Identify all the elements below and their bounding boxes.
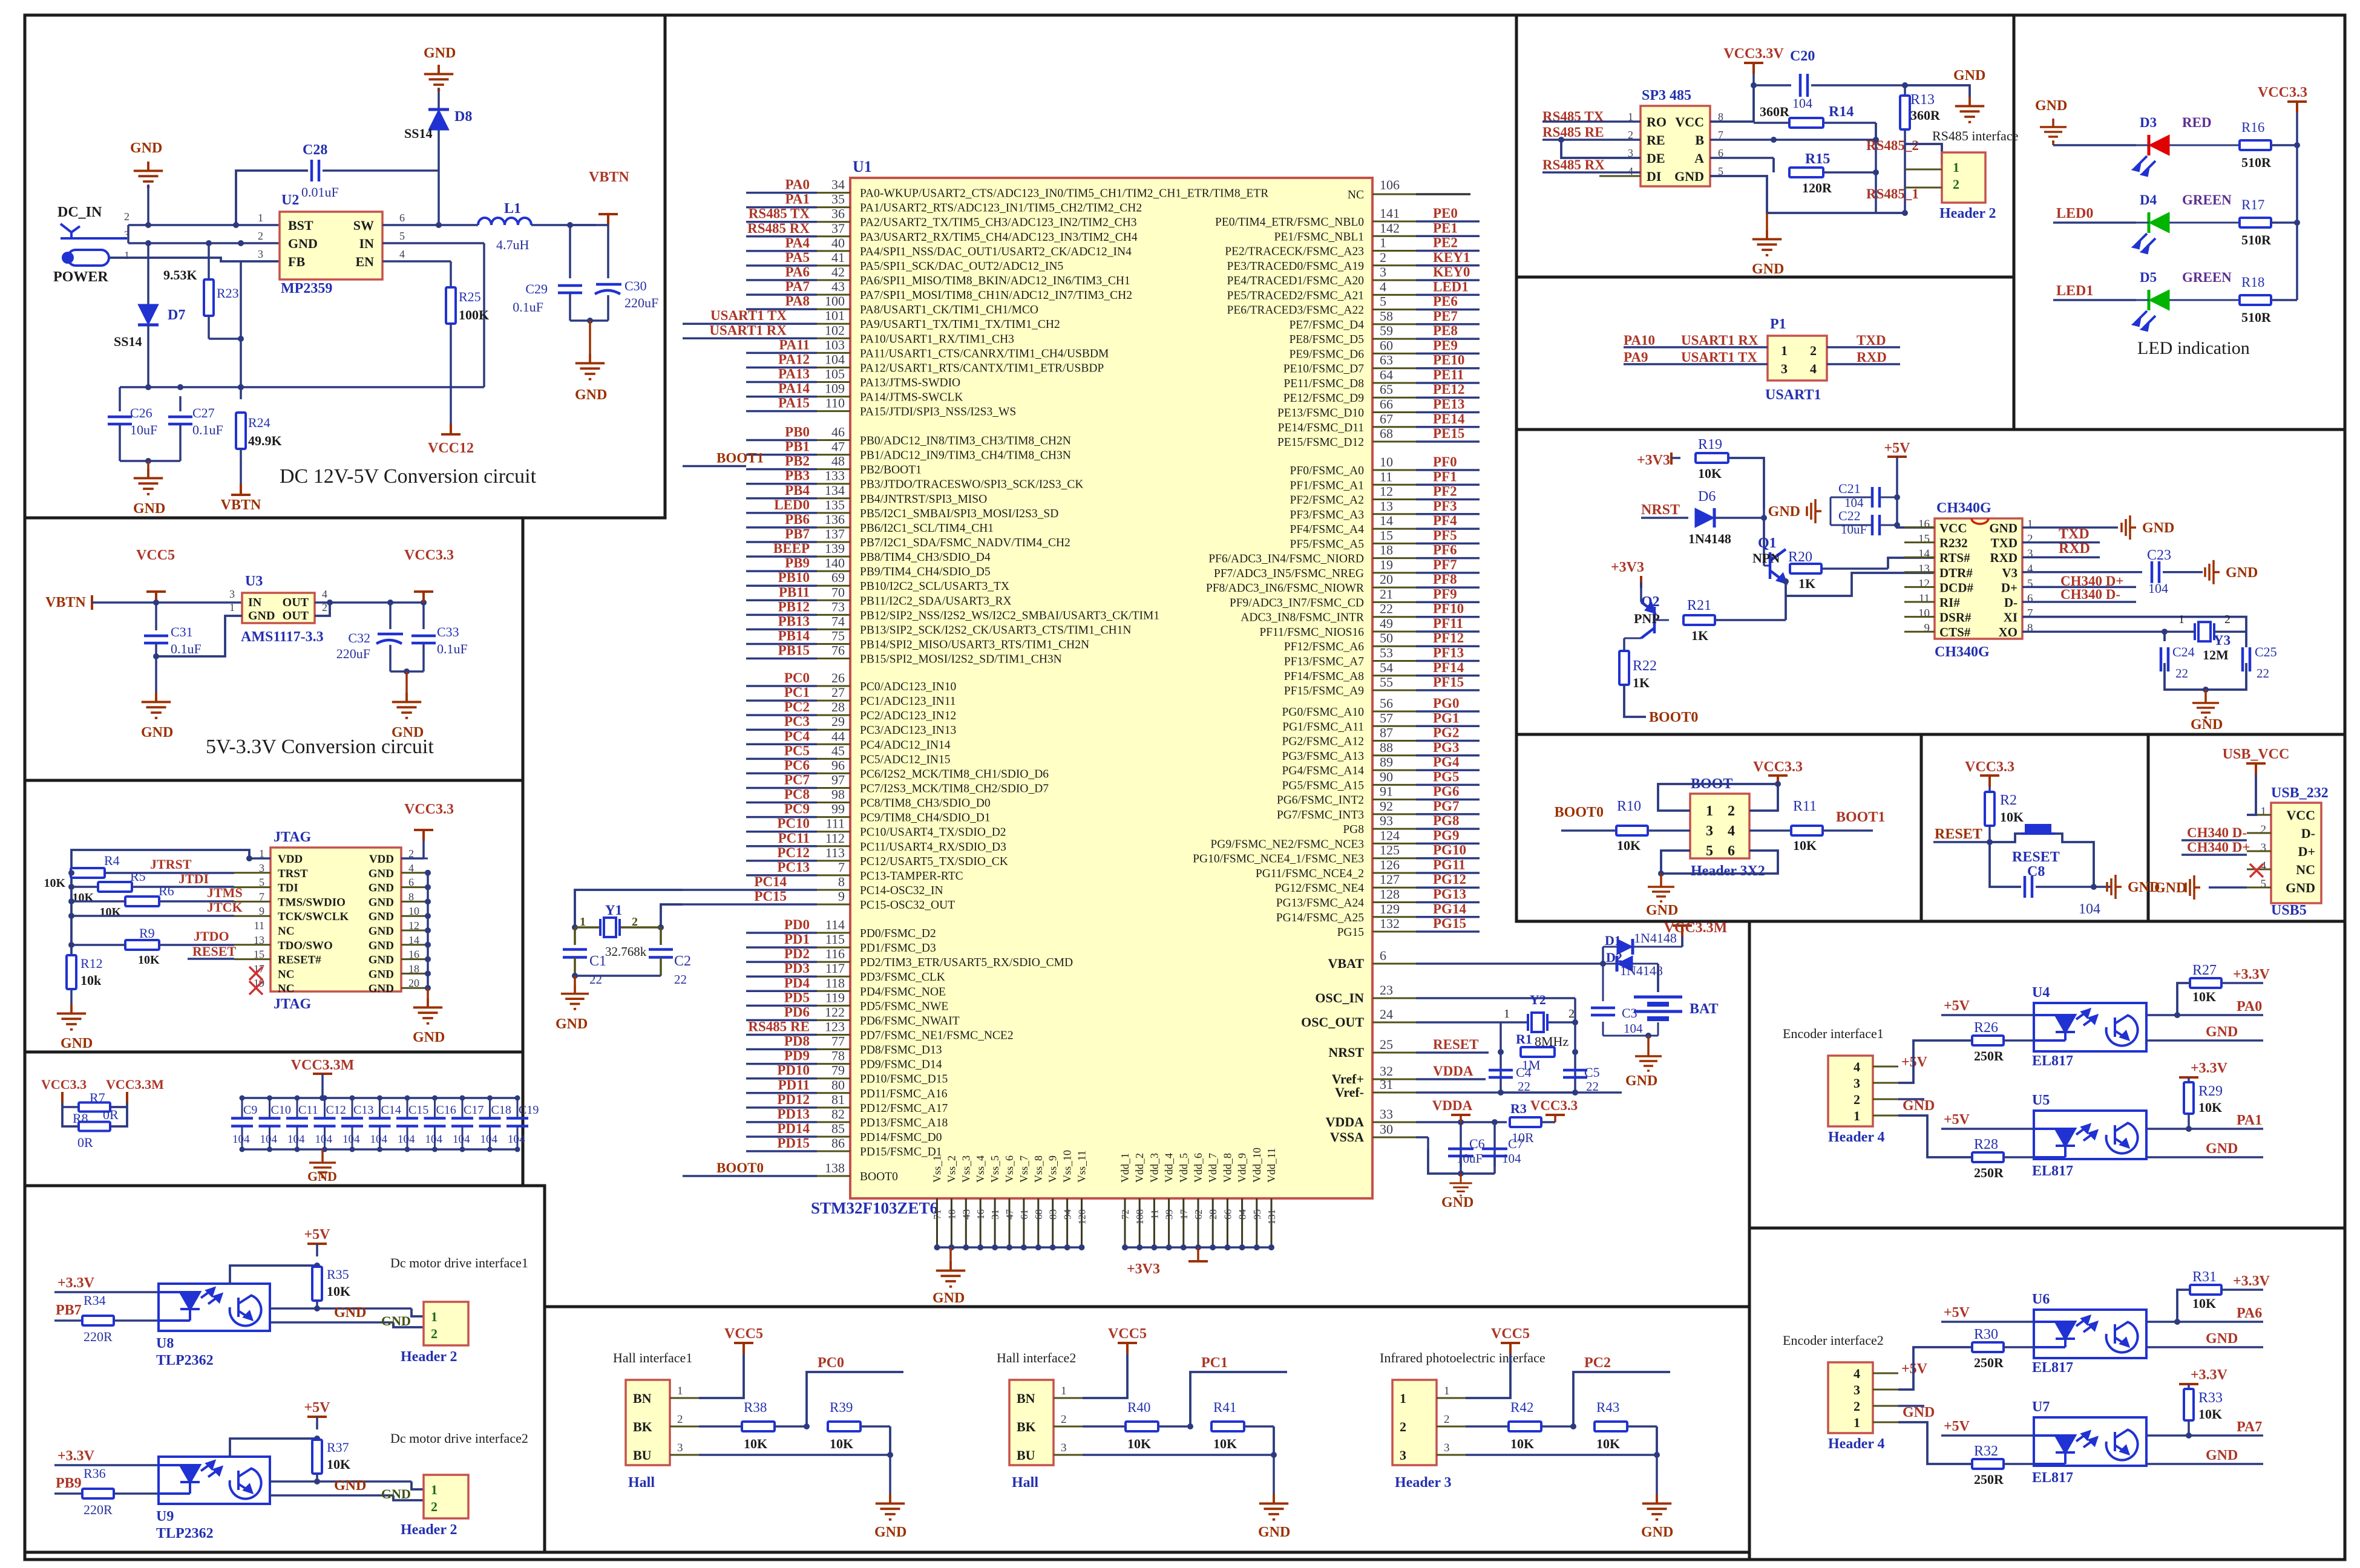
svg-text:PC2: PC2	[1584, 1355, 1611, 1371]
svg-text:PA13/JTMS-SWDIO: PA13/JTMS-SWDIO	[860, 377, 960, 390]
svg-text:VBTN: VBTN	[221, 497, 261, 513]
svg-text:PE8: PE8	[1433, 323, 1458, 338]
svg-text:PD2/TIM3_ETR/USART5_RX/SDIO_CM: PD2/TIM3_ETR/USART5_RX/SDIO_CMD	[860, 956, 1073, 969]
svg-text:DC 12V-5V Conversion circuit: DC 12V-5V Conversion circuit	[280, 465, 537, 488]
svg-text:PC8/TIM8_CH3/SDIO_D0: PC8/TIM8_CH3/SDIO_D0	[860, 797, 991, 810]
svg-text:PD4: PD4	[784, 975, 810, 990]
svg-text:PD8/FSMC_D13: PD8/FSMC_D13	[860, 1044, 942, 1057]
svg-text:GND: GND	[556, 1016, 588, 1032]
svg-text:+3.3V: +3.3V	[57, 1275, 95, 1291]
svg-text:12: 12	[1918, 577, 1930, 590]
svg-text:10: 10	[946, 1209, 957, 1220]
svg-text:4: 4	[1728, 823, 1735, 839]
svg-text:PC12: PC12	[777, 845, 810, 860]
svg-text:VCC5: VCC5	[724, 1326, 763, 1342]
svg-text:2: 2	[1810, 343, 1817, 358]
svg-text:120: 120	[1077, 1209, 1088, 1225]
svg-text:PE2/TRACECK/FSMC_A23: PE2/TRACECK/FSMC_A23	[1225, 246, 1364, 258]
svg-text:PA8: PA8	[785, 293, 810, 309]
svg-text:42: 42	[831, 264, 845, 279]
svg-text:PB10/I2C2_SCL/USART3_TX: PB10/I2C2_SCL/USART3_TX	[860, 580, 1009, 593]
svg-text:Hall: Hall	[628, 1475, 655, 1491]
svg-text:R32: R32	[1974, 1443, 1998, 1459]
svg-text:R11: R11	[1793, 799, 1817, 814]
svg-text:NRST: NRST	[1328, 1045, 1364, 1060]
svg-text:PE3/TRACED0/FSMC_A19: PE3/TRACED0/FSMC_A19	[1227, 260, 1364, 273]
svg-text:5V-3.3V Conversion circuit: 5V-3.3V Conversion circuit	[206, 736, 434, 758]
svg-text:Q2: Q2	[1641, 594, 1660, 610]
svg-text:22: 22	[589, 972, 602, 987]
svg-text:C29: C29	[525, 281, 548, 296]
svg-text:1: 1	[1706, 803, 1713, 819]
svg-text:C24: C24	[2172, 644, 2195, 659]
svg-text:2: 2	[1854, 1092, 1860, 1107]
svg-text:JTAG: JTAG	[274, 996, 312, 1012]
svg-text:PA9/USART1_TX/TIM1_TX/TIM1_CH2: PA9/USART1_TX/TIM1_TX/TIM1_CH2	[860, 318, 1060, 331]
svg-text:PF5: PF5	[1433, 528, 1457, 543]
svg-text:R34: R34	[84, 1293, 106, 1308]
svg-text:1K: 1K	[1798, 576, 1815, 591]
svg-text:VCC12: VCC12	[428, 440, 474, 456]
svg-text:5: 5	[2261, 878, 2267, 890]
svg-text:B: B	[1695, 132, 1704, 148]
svg-text:R10: R10	[1617, 799, 1641, 814]
svg-text:10K: 10K	[44, 877, 65, 890]
svg-text:Vss_3: Vss_3	[960, 1155, 972, 1183]
svg-text:PC10: PC10	[777, 816, 810, 831]
svg-text:138: 138	[825, 1160, 845, 1175]
svg-text:PF6/ADC3_IN4/FSMC_NIORD: PF6/ADC3_IN4/FSMC_NIORD	[1208, 553, 1364, 566]
svg-text:Vdd_10: Vdd_10	[1251, 1148, 1263, 1183]
svg-text:PA15: PA15	[778, 396, 810, 411]
svg-text:PB7: PB7	[56, 1302, 82, 1318]
svg-text:VSSA: VSSA	[1330, 1129, 1364, 1145]
svg-text:PC9: PC9	[784, 802, 810, 817]
svg-text:PA8/USART1_CK/TIM1_CH1/MCO: PA8/USART1_CK/TIM1_CH1/MCO	[860, 304, 1038, 316]
svg-text:6: 6	[1380, 948, 1386, 963]
svg-text:2: 2	[2261, 823, 2267, 836]
svg-text:GND: GND	[1641, 1524, 1673, 1540]
svg-text:RS485 RX: RS485 RX	[1542, 157, 1605, 172]
svg-text:FB: FB	[288, 254, 305, 269]
svg-text:OSC_OUT: OSC_OUT	[1301, 1014, 1364, 1030]
svg-text:PB7/I2C1_SDA/FSMC_NADV/TIM4_CH: PB7/I2C1_SDA/FSMC_NADV/TIM4_CH2	[860, 537, 1070, 549]
svg-text:2: 2	[1061, 1413, 1067, 1426]
svg-text:1: 1	[1444, 1385, 1450, 1397]
svg-text:PD3: PD3	[784, 961, 810, 976]
svg-text:GND: GND	[381, 1313, 411, 1328]
svg-text:C15: C15	[408, 1103, 428, 1117]
svg-text:PE12: PE12	[1433, 382, 1464, 397]
svg-text:U9: U9	[156, 1509, 174, 1524]
svg-text:PG2/FSMC_A12: PG2/FSMC_A12	[1282, 736, 1364, 748]
svg-text:30: 30	[1380, 1122, 1393, 1137]
svg-text:PA11/USART1_CTS/CANRX/TIM1_CH4: PA11/USART1_CTS/CANRX/TIM1_CH4/USBDM	[860, 347, 1109, 360]
svg-text:MP2359: MP2359	[281, 281, 332, 296]
svg-text:PG7: PG7	[1433, 799, 1459, 814]
svg-text:4.7uH: 4.7uH	[496, 237, 529, 252]
svg-text:VCC3.3: VCC3.3	[2258, 85, 2307, 100]
svg-text:142: 142	[1380, 220, 1400, 235]
svg-text:PE14/FSMC_D11: PE14/FSMC_D11	[1278, 422, 1364, 434]
svg-text:114: 114	[825, 917, 845, 932]
svg-text:46: 46	[831, 425, 845, 440]
svg-text:R35: R35	[327, 1267, 349, 1282]
svg-text:35: 35	[831, 192, 845, 207]
svg-text:4: 4	[1854, 1059, 1860, 1074]
svg-text:PD0: PD0	[784, 917, 810, 932]
svg-text:GND: GND	[141, 725, 173, 740]
svg-text:BN: BN	[1017, 1391, 1035, 1406]
svg-text:PE0/TIM4_ETR/FSMC_NBL0: PE0/TIM4_ETR/FSMC_NBL0	[1215, 216, 1364, 229]
svg-text:66: 66	[1380, 397, 1393, 412]
svg-text:R13: R13	[1910, 92, 1935, 108]
svg-text:BK: BK	[633, 1419, 652, 1434]
svg-text:Vss_10: Vss_10	[1061, 1150, 1073, 1183]
svg-text:2: 2	[677, 1413, 683, 1426]
svg-text:Header 2: Header 2	[401, 1522, 457, 1538]
svg-text:PD15/FSMC_D1: PD15/FSMC_D1	[860, 1146, 942, 1158]
svg-text:48: 48	[831, 454, 845, 469]
svg-text:SS14: SS14	[404, 126, 432, 141]
svg-text:GND: GND	[413, 1030, 445, 1045]
svg-text:C2: C2	[674, 953, 691, 969]
svg-text:PE6: PE6	[1433, 294, 1458, 309]
svg-text:PB11/I2C2_SDA/USART3_RX: PB11/I2C2_SDA/USART3_RX	[860, 595, 1012, 607]
svg-text:1: 1	[2261, 805, 2267, 818]
svg-text:57: 57	[1380, 710, 1393, 725]
svg-text:U2: U2	[281, 192, 299, 208]
svg-text:PF9: PF9	[1433, 586, 1457, 601]
svg-text:PE6/TRACED3/FSMC_A22: PE6/TRACED3/FSMC_A22	[1227, 304, 1364, 317]
svg-text:LED indication: LED indication	[2137, 338, 2250, 358]
svg-text:C26: C26	[130, 405, 152, 420]
svg-text:R31: R31	[2192, 1269, 2217, 1285]
svg-text:C8: C8	[2027, 864, 2045, 880]
svg-text:RTS#: RTS#	[1939, 550, 1970, 565]
svg-text:U3: U3	[245, 573, 263, 589]
svg-text:RXD: RXD	[1857, 350, 1887, 365]
svg-text:4: 4	[1380, 279, 1386, 294]
svg-text:POWER: POWER	[53, 269, 108, 285]
svg-text:PD0/FSMC_D2: PD0/FSMC_D2	[860, 927, 936, 940]
svg-text:101: 101	[825, 308, 845, 323]
svg-text:PB9/TIM4_CH4/SDIO_D5: PB9/TIM4_CH4/SDIO_D5	[860, 566, 991, 578]
svg-text:C17: C17	[464, 1103, 483, 1117]
svg-text:D+: D+	[2298, 844, 2315, 859]
svg-text:104: 104	[480, 1133, 498, 1146]
svg-text:R19: R19	[1698, 437, 1722, 452]
svg-text:CH340G: CH340G	[1936, 500, 1991, 516]
svg-text:SP3 485: SP3 485	[1642, 88, 1691, 103]
svg-text:USB5: USB5	[2271, 903, 2307, 918]
svg-text:Dc motor drive interface2: Dc motor drive interface2	[390, 1431, 528, 1446]
svg-text:104: 104	[1624, 1021, 1643, 1036]
svg-text:VCC3.3M: VCC3.3M	[291, 1057, 355, 1073]
svg-text:GND: GND	[1989, 521, 2017, 535]
svg-text:PF12: PF12	[1433, 630, 1464, 645]
svg-text:ADC3_IN8/FSMC_INTR: ADC3_IN8/FSMC_INTR	[1241, 612, 1364, 624]
svg-text:Vdd_6: Vdd_6	[1192, 1153, 1204, 1183]
svg-text:PA10/USART1_RX/TIM1_CH3: PA10/USART1_RX/TIM1_CH3	[860, 333, 1014, 345]
svg-text:NC: NC	[2296, 862, 2315, 877]
svg-text:94: 94	[1062, 1209, 1073, 1220]
svg-text:P1: P1	[1770, 316, 1786, 332]
svg-text:PF7/ADC3_IN5/FSMC_NREG: PF7/ADC3_IN5/FSMC_NREG	[1214, 567, 1364, 580]
svg-text:7: 7	[838, 860, 845, 875]
svg-text:GREEN: GREEN	[2182, 270, 2232, 285]
svg-text:PF14/FSMC_A8: PF14/FSMC_A8	[1284, 670, 1364, 683]
svg-text:PG11/FSMC_NCE4_2: PG11/FSMC_NCE4_2	[1256, 867, 1364, 880]
svg-text:22: 22	[674, 972, 687, 987]
svg-text:10K: 10K	[1698, 466, 1722, 481]
svg-text:C21: C21	[1838, 481, 1861, 496]
svg-text:R36: R36	[84, 1466, 106, 1481]
svg-text:R232: R232	[1939, 536, 1968, 550]
svg-text:PC9/TIM8_CH4/SDIO_D1: PC9/TIM8_CH4/SDIO_D1	[860, 812, 991, 825]
svg-text:TCK/SWCLK: TCK/SWCLK	[278, 910, 349, 923]
svg-text:RS485 RX: RS485 RX	[747, 221, 810, 236]
svg-text:GND: GND	[1674, 169, 1704, 184]
svg-text:10K: 10K	[1596, 1436, 1620, 1451]
svg-text:127: 127	[1380, 872, 1400, 887]
svg-text:+5V: +5V	[304, 1400, 330, 1416]
svg-text:PD14: PD14	[777, 1121, 810, 1136]
svg-text:3: 3	[2261, 841, 2267, 854]
svg-text:104: 104	[315, 1133, 333, 1146]
svg-text:RESET: RESET	[1935, 826, 1982, 842]
svg-text:PB2/BOOT1: PB2/BOOT1	[860, 464, 922, 477]
svg-text:510R: 510R	[2241, 232, 2272, 247]
svg-text:PC1: PC1	[1201, 1355, 1228, 1371]
svg-text:65: 65	[1380, 382, 1393, 397]
svg-text:TXD: TXD	[1991, 536, 2017, 550]
svg-text:6: 6	[399, 212, 405, 224]
svg-text:U8: U8	[156, 1336, 174, 1351]
svg-text:PA14/JTMS-SWCLK: PA14/JTMS-SWCLK	[860, 391, 963, 404]
svg-text:125: 125	[1380, 843, 1400, 858]
svg-text:TXD: TXD	[2059, 526, 2090, 542]
svg-text:PB3: PB3	[785, 468, 810, 483]
svg-text:PC13: PC13	[777, 860, 810, 875]
svg-text:PA4: PA4	[785, 235, 810, 250]
svg-text:PB13: PB13	[778, 613, 810, 629]
svg-text:100: 100	[825, 293, 845, 309]
svg-text:49: 49	[1380, 616, 1393, 631]
svg-text:128: 128	[1380, 887, 1400, 902]
svg-text:PE8/FSMC_D5: PE8/FSMC_D5	[1289, 333, 1364, 346]
svg-text:2: 2	[431, 1326, 438, 1341]
svg-text:+3V3: +3V3	[1637, 452, 1670, 468]
svg-text:10K: 10K	[327, 1457, 350, 1472]
svg-text:C30: C30	[624, 278, 647, 293]
svg-text:PA0-WKUP/USART2_CTS/ADC123_IN0: PA0-WKUP/USART2_CTS/ADC123_IN0/TIM5_CH1/…	[860, 188, 1268, 200]
svg-text:GND: GND	[1625, 1073, 1657, 1089]
svg-text:134: 134	[825, 483, 845, 498]
svg-text:1: 1	[2178, 613, 2185, 626]
svg-text:C10: C10	[271, 1103, 291, 1117]
svg-text:R6: R6	[159, 883, 174, 898]
svg-text:PC15: PC15	[754, 889, 787, 904]
svg-text:PA9: PA9	[1624, 350, 1648, 365]
svg-text:PB13/SIP2_SCK/I2S2_CK/USART3_C: PB13/SIP2_SCK/I2S2_CK/USART3_CTS/TIM1_CH…	[860, 624, 1132, 636]
svg-text:72: 72	[1119, 1209, 1131, 1220]
svg-text:22: 22	[1586, 1079, 1599, 1094]
svg-text:R27: R27	[2192, 962, 2217, 978]
svg-text:PNP: PNP	[1634, 611, 1660, 626]
svg-text:+3V3: +3V3	[1127, 1261, 1160, 1277]
svg-text:133: 133	[825, 468, 845, 483]
svg-text:62: 62	[1193, 1209, 1204, 1220]
svg-text:86: 86	[831, 1135, 845, 1151]
svg-text:PA1: PA1	[2237, 1112, 2262, 1128]
svg-text:GND: GND	[2206, 1331, 2238, 1347]
svg-text:DI: DI	[1647, 169, 1661, 184]
svg-text:3: 3	[1400, 1448, 1406, 1463]
svg-text:PG9/FSMC_NE2/FSMC_NCE3: PG9/FSMC_NE2/FSMC_NCE3	[1210, 838, 1364, 851]
svg-text:VCC3.3: VCC3.3	[404, 547, 454, 563]
svg-text:3: 3	[1781, 361, 1788, 376]
svg-text:20: 20	[1380, 572, 1393, 587]
svg-text:BOOT1: BOOT1	[1836, 809, 1885, 825]
svg-text:4: 4	[1854, 1366, 1860, 1381]
svg-text:KEY0: KEY0	[1433, 264, 1470, 279]
svg-text:10k: 10k	[80, 973, 102, 988]
svg-text:PA6: PA6	[2237, 1305, 2262, 1321]
svg-text:GND: GND	[2286, 880, 2315, 895]
svg-text:TLP2362: TLP2362	[156, 1353, 214, 1368]
svg-text:1: 1	[1400, 1391, 1406, 1406]
svg-text:D8: D8	[454, 109, 472, 125]
svg-text:104: 104	[425, 1133, 443, 1146]
svg-text:PE7: PE7	[1433, 309, 1458, 324]
svg-text:0.1uF: 0.1uF	[437, 641, 468, 656]
svg-text:EL817: EL817	[2032, 1053, 2073, 1069]
svg-text:28: 28	[1207, 1209, 1219, 1220]
svg-text:PE13/FSMC_D10: PE13/FSMC_D10	[1277, 407, 1364, 420]
svg-text:BST: BST	[288, 218, 313, 233]
svg-text:PF6: PF6	[1433, 543, 1457, 558]
svg-text:3: 3	[1380, 264, 1386, 279]
svg-text:PE9: PE9	[1433, 338, 1458, 353]
svg-text:VCC5: VCC5	[1491, 1326, 1530, 1342]
svg-text:C32: C32	[348, 630, 370, 645]
svg-text:VBAT: VBAT	[1328, 956, 1365, 971]
svg-text:GND: GND	[133, 501, 165, 517]
svg-text:2: 2	[1400, 1419, 1406, 1434]
svg-text:PA10: PA10	[1624, 333, 1655, 348]
svg-text:3: 3	[1061, 1442, 1067, 1454]
svg-text:PE13: PE13	[1433, 397, 1464, 412]
svg-text:PC8: PC8	[784, 787, 810, 802]
svg-text:Vdd_2: Vdd_2	[1133, 1153, 1146, 1183]
svg-text:Vss_11: Vss_11	[1076, 1151, 1088, 1183]
svg-text:PB15/SPI2_MOSI/I2S2_SD/TIM1_CH: PB15/SPI2_MOSI/I2S2_SD/TIM1_CH3N	[860, 653, 1062, 666]
svg-text:510R: 510R	[2241, 310, 2272, 325]
svg-text:16: 16	[1918, 518, 1930, 531]
svg-text:U5: U5	[2032, 1093, 2050, 1108]
svg-text:9: 9	[838, 889, 845, 904]
svg-text:PB12: PB12	[778, 599, 810, 614]
svg-text:GND: GND	[1768, 504, 1800, 520]
svg-text:103: 103	[825, 337, 845, 352]
svg-text:GND: GND	[1953, 68, 1985, 83]
svg-text:131: 131	[1266, 1209, 1277, 1225]
svg-text:11: 11	[1919, 592, 1930, 605]
svg-text:VDD: VDD	[369, 853, 394, 866]
svg-text:PG10: PG10	[1433, 843, 1466, 858]
svg-text:Vss_4: Vss_4	[974, 1155, 986, 1183]
svg-text:2: 2	[1728, 803, 1735, 819]
svg-text:XI: XI	[2004, 610, 2017, 625]
svg-text:PC7: PC7	[784, 772, 810, 787]
svg-text:PG1: PG1	[1433, 710, 1459, 725]
svg-text:Vref-: Vref-	[1335, 1085, 1364, 1100]
svg-text:EL817: EL817	[2032, 1470, 2073, 1486]
svg-text:2: 2	[124, 211, 129, 223]
svg-text:VCC3.3: VCC3.3	[1530, 1098, 1578, 1113]
svg-text:OUT: OUT	[283, 609, 309, 622]
svg-text:PB4: PB4	[785, 483, 810, 498]
svg-text:2: 2	[2224, 613, 2231, 626]
svg-text:PF11/FSMC_NIOS16: PF11/FSMC_NIOS16	[1259, 626, 1364, 639]
svg-text:5: 5	[399, 230, 405, 242]
svg-text:D4: D4	[2140, 192, 2157, 207]
svg-text:VCC: VCC	[1939, 521, 1967, 535]
svg-text:85: 85	[831, 1121, 845, 1136]
svg-text:RED: RED	[2182, 115, 2212, 130]
svg-text:3: 3	[258, 248, 263, 260]
svg-text:PB4/JNTRST/SPI3_MISO: PB4/JNTRST/SPI3_MISO	[860, 493, 987, 506]
svg-text:510R: 510R	[2241, 155, 2272, 170]
svg-text:PE10: PE10	[1433, 353, 1464, 368]
svg-text:TLP2362: TLP2362	[156, 1526, 214, 1541]
svg-text:Vss_6: Vss_6	[1003, 1155, 1015, 1183]
svg-text:RS485_2: RS485_2	[1866, 138, 1919, 153]
svg-text:250R: 250R	[1974, 1472, 2004, 1487]
svg-text:R21: R21	[1687, 598, 1711, 613]
svg-text:C28: C28	[303, 142, 327, 158]
svg-text:22: 22	[2175, 666, 2188, 681]
svg-text:2: 2	[1953, 177, 1959, 192]
svg-text:GND: GND	[369, 882, 394, 895]
svg-text:32.768k: 32.768k	[605, 944, 647, 959]
svg-text:VBTN: VBTN	[589, 169, 629, 185]
svg-text:GND: GND	[2206, 1024, 2238, 1040]
svg-text:74: 74	[831, 613, 845, 629]
svg-text:PG13: PG13	[1433, 887, 1466, 902]
svg-text:97: 97	[831, 772, 845, 787]
svg-text:AMS1117-3.3: AMS1117-3.3	[241, 629, 324, 645]
svg-text:5: 5	[1380, 294, 1386, 309]
svg-text:R22: R22	[1633, 658, 1657, 674]
svg-text:+3.3V: +3.3V	[2191, 1367, 2228, 1383]
svg-text:92: 92	[1380, 799, 1393, 814]
svg-text:GND: GND	[1258, 1524, 1290, 1540]
svg-text:R15: R15	[1805, 151, 1830, 167]
svg-text:SW: SW	[353, 218, 374, 233]
svg-text:8MHz: 8MHz	[1535, 1034, 1568, 1049]
svg-text:104: 104	[1792, 96, 1812, 111]
svg-text:R7: R7	[90, 1090, 105, 1105]
svg-text:PA1/USART2_RTS/ADC123_IN1/TIM5: PA1/USART2_RTS/ADC123_IN1/TIM5_CH2/TIM2_…	[860, 202, 1142, 215]
svg-text:21: 21	[1380, 586, 1393, 601]
svg-text:2: 2	[1444, 1413, 1450, 1426]
svg-text:VCC5: VCC5	[136, 547, 175, 563]
svg-text:+3.3V: +3.3V	[2191, 1060, 2228, 1076]
svg-text:10uF: 10uF	[130, 422, 157, 437]
svg-text:31: 31	[989, 1209, 1001, 1220]
